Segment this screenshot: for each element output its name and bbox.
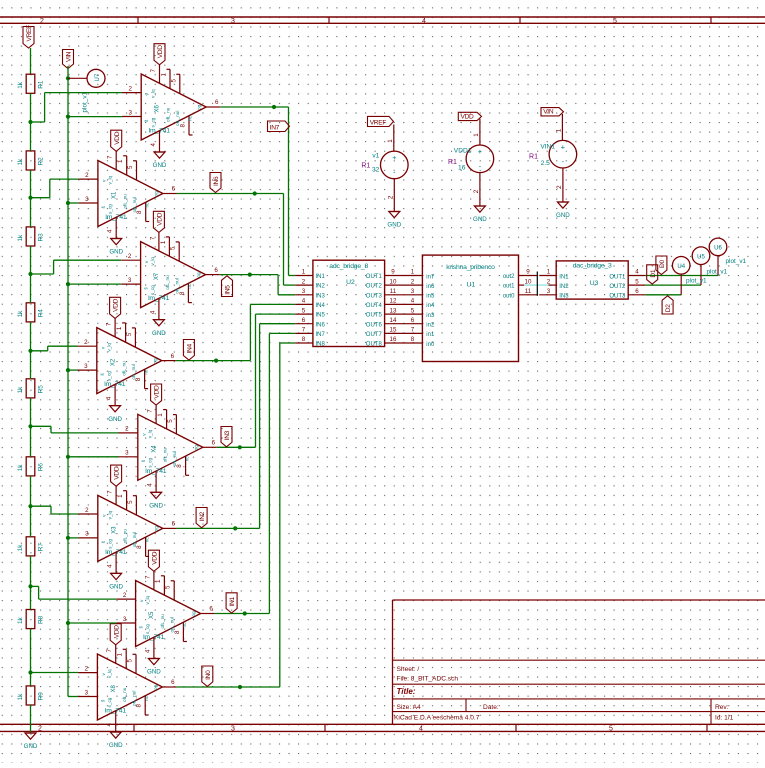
svg-text:lm_741: lm_741 (145, 468, 167, 475)
svg-text:3: 3 (302, 288, 306, 295)
svg-text:ofL_nul: ofL_nul (172, 451, 177, 466)
svg-text:IN6: IN6 (316, 322, 326, 328)
svg-text:R2: R2 (38, 157, 45, 166)
svg-text:og: og (197, 104, 202, 110)
op-amp X1 lm_741 (79, 151, 177, 238)
svg-text:VDD: VDD (152, 551, 159, 565)
svg-text:+: + (478, 147, 482, 156)
svg-text:OUT4: OUT4 (366, 303, 383, 309)
svg-text:7: 7 (302, 327, 306, 334)
svg-text:5: 5 (127, 659, 134, 663)
wire net from X3 output to ADC pin 6 (177, 324, 295, 531)
resistor R3 1k (17, 227, 45, 246)
svg-text:2: 2 (125, 426, 129, 433)
svg-text:GND: GND (473, 216, 487, 223)
svg-text:s_cg: s_cg (107, 204, 112, 214)
svg-text:1: 1 (387, 139, 394, 143)
svg-text:X3: X3 (111, 526, 117, 534)
svg-text:16: 16 (458, 165, 466, 172)
svg-text:U2: U2 (346, 279, 355, 286)
global label IN6 (210, 173, 221, 193)
svg-text:out0: out0 (503, 293, 515, 299)
svg-text:3: 3 (85, 196, 89, 203)
svg-text:6: 6 (171, 679, 175, 686)
junction dots on VIN rail (66, 76, 70, 625)
svg-text:4: 4 (107, 229, 114, 233)
svg-text:IN1: IN1 (229, 597, 236, 607)
svg-text:IN3: IN3 (316, 293, 326, 299)
svg-text:5: 5 (609, 726, 613, 733)
svg-text:IN8: IN8 (316, 342, 326, 348)
svg-text:Rev:: Rev: (715, 704, 729, 711)
svg-text:2: 2 (473, 189, 480, 193)
power label VDD for X4 (151, 384, 162, 405)
plot component U4 (672, 257, 707, 285)
op-amp X6 lm_741 (122, 65, 220, 152)
svg-text:nc: nc (182, 622, 187, 628)
svg-text:dac_bridge_3: dac_bridge_3 (573, 263, 612, 270)
svg-text:2: 2 (128, 253, 132, 260)
plot component U5 (692, 247, 727, 275)
svg-text:IN5: IN5 (225, 285, 232, 295)
svg-text:2: 2 (38, 726, 42, 733)
svg-text:ofL_nul: ofL_nul (131, 364, 136, 379)
svg-text:1: 1 (117, 494, 124, 498)
svg-text:7: 7 (150, 69, 157, 73)
svg-text:1k: 1k (17, 234, 24, 242)
svg-text:og: og (191, 611, 196, 617)
svg-text:X5: X5 (149, 611, 155, 619)
svg-text:in3: in3 (426, 313, 435, 319)
svg-text:R1: R1 (38, 80, 45, 89)
resistor R8 1k (17, 610, 45, 629)
svg-text:2: 2 (40, 18, 44, 25)
svg-text:32: 32 (372, 166, 380, 173)
svg-text:GND: GND (153, 162, 167, 169)
resistor R5 1k (17, 379, 45, 398)
svg-text:1: 1 (117, 653, 124, 657)
wire resistor chain (30, 93, 32, 733)
svg-text:VDD: VDD (157, 45, 164, 59)
svg-text:ofL_nul: ofL_nul (131, 691, 136, 706)
svg-text:2: 2 (84, 339, 88, 346)
svg-text:out1: out1 (503, 284, 515, 290)
svg-text:GND: GND (147, 669, 161, 676)
svg-text:8: 8 (136, 545, 143, 549)
svg-text:IN4: IN4 (316, 303, 326, 309)
svg-text:5: 5 (167, 419, 174, 423)
svg-text:2: 2 (128, 85, 132, 92)
svg-text:nc: nc (144, 202, 149, 208)
ground below X5 (147, 659, 161, 676)
svg-text:s_cg: s_cg (145, 624, 150, 634)
svg-text:3: 3 (128, 277, 132, 284)
svg-text:4: 4 (147, 483, 154, 487)
svg-text:8: 8 (174, 630, 181, 634)
svg-text:7: 7 (149, 236, 156, 240)
svg-text:in6: in6 (426, 284, 435, 290)
svg-text:OUT2: OUT2 (609, 284, 626, 290)
svg-text:3: 3 (231, 18, 235, 25)
svg-text:in1: in1 (426, 332, 435, 338)
svg-text:Date:: Date: (483, 704, 499, 711)
svg-text:IN1: IN1 (559, 274, 569, 280)
svg-text:5: 5 (302, 307, 306, 314)
svg-text:1: 1 (116, 326, 123, 330)
svg-text:plot_v1: plot_v1 (707, 268, 728, 275)
svg-text:R1: R1 (529, 154, 538, 161)
svg-text:2: 2 (411, 278, 415, 285)
IC U1 krishna_pribenco (422, 255, 537, 361)
svg-text:IN7: IN7 (270, 124, 280, 131)
svg-text:8: 8 (302, 336, 306, 343)
svg-text:nc: nc (143, 369, 148, 375)
power label VDD for X5 (148, 550, 159, 571)
svg-text:R1: R1 (361, 163, 370, 170)
svg-text:U7: U7 (95, 73, 101, 81)
ground below VDD source (473, 206, 487, 223)
svg-text:1: 1 (302, 269, 306, 276)
svg-text:5: 5 (170, 246, 177, 250)
svg-text:X6: X6 (155, 104, 161, 112)
svg-text:Size: A4: Size: A4 (397, 704, 422, 711)
svg-text:U4: U4 (677, 264, 685, 270)
svg-text:IN1: IN1 (316, 274, 326, 280)
svg-text:nc: nc (188, 115, 193, 121)
svg-text:v1: v1 (372, 152, 379, 159)
svg-text:10: 10 (390, 278, 397, 285)
svg-text:7: 7 (107, 490, 114, 494)
svg-text:2: 2 (123, 592, 127, 599)
svg-text:2: 2 (556, 185, 563, 189)
global label VIN (541, 108, 564, 116)
svg-text:2: 2 (85, 665, 89, 672)
svg-text:R1: R1 (448, 159, 457, 166)
wire net from X1 output to ADC pin 2 (177, 191, 295, 285)
svg-text:IN3: IN3 (224, 430, 231, 440)
svg-text:plot_v1: plot_v1 (726, 258, 747, 265)
ground below VREF source (387, 212, 401, 229)
svg-text:5: 5 (127, 165, 134, 169)
op-amp X5 lm_741 (116, 571, 214, 658)
svg-text:3: 3 (547, 288, 551, 295)
global label D1 (647, 265, 658, 284)
wires U2 outputs to U1 inputs (402, 269, 423, 344)
svg-text:D0: D0 (659, 260, 666, 268)
svg-text:R3: R3 (38, 233, 45, 242)
svg-text:7: 7 (411, 327, 415, 334)
svg-text:File: 8_BIT_ADC.sch: File: 8_BIT_ADC.sch (397, 676, 459, 683)
svg-text:ofL_nu: ofL_nu (166, 107, 171, 122)
svg-text:lm_741: lm_741 (105, 214, 127, 221)
svg-text:2: 2 (302, 278, 306, 285)
svg-text:ofL_nu: ofL_nu (165, 275, 170, 290)
global label IN0 (202, 666, 213, 686)
svg-text:X1: X1 (111, 191, 117, 199)
svg-text:2: 2 (387, 195, 394, 199)
svg-text:4: 4 (422, 18, 426, 25)
sheet border bottom (0, 724, 765, 732)
svg-text:3: 3 (85, 689, 89, 696)
global label VREF (23, 25, 34, 48)
svg-text:1: 1 (157, 413, 164, 417)
svg-text:og: og (153, 526, 158, 532)
graphic line between U1 and U3 (536, 272, 538, 296)
svg-text:v_lq: v_lq (145, 596, 150, 605)
svg-text:ofL_nu: ofL_nu (121, 361, 126, 376)
svg-text:KiCad E.D.A eeschema 4.0.7: KiCad E.D.A eeschema 4.0.7 (394, 714, 480, 721)
svg-text:9: 9 (391, 269, 395, 276)
svg-text:in2: in2 (426, 323, 435, 329)
svg-text:VIN: VIN (66, 51, 73, 62)
ground below X7 (152, 320, 166, 337)
svg-text:ofL_nul: ofL_nul (175, 278, 180, 293)
svg-text:2: 2 (85, 507, 89, 514)
svg-text:GND: GND (149, 503, 163, 510)
svg-text:OUT1: OUT1 (609, 274, 626, 280)
svg-text:ofL_nul: ofL_nul (170, 617, 175, 632)
svg-text:5: 5 (165, 585, 172, 589)
svg-text:VDD: VDD (114, 131, 121, 145)
ground below X6 (153, 152, 167, 169)
svg-text:v_lq: v_lq (106, 343, 111, 352)
svg-text:R7: R7 (38, 543, 45, 552)
svg-text:ofL_nu: ofL_nu (162, 448, 167, 463)
svg-text:ofL_nul: ofL_nul (132, 197, 137, 212)
op-amp X4 lm_741 (119, 405, 217, 492)
svg-text:ofL_nul: ofL_nul (175, 111, 180, 126)
svg-text:ofL_nu: ofL_nu (122, 529, 127, 544)
wire VIN rail (67, 66, 69, 697)
svg-text:VREF: VREF (370, 119, 387, 126)
svg-text:3: 3 (123, 616, 127, 623)
svg-text:lm_741: lm_741 (149, 128, 171, 135)
plot component U7 (68, 69, 105, 112)
svg-text:VDD: VDD (113, 625, 120, 639)
svg-text:adc_bridge_8: adc_bridge_8 (329, 263, 368, 270)
svg-text:D1: D1 (650, 269, 657, 277)
svg-text:lm_741: lm_741 (148, 295, 170, 302)
svg-text:nc: nc (144, 695, 149, 701)
svg-text:GND: GND (24, 743, 38, 750)
op-amp X3 lm_741 (79, 486, 177, 573)
svg-text:8: 8 (136, 704, 143, 708)
svg-text:R8: R8 (38, 615, 45, 624)
global label D0 (656, 256, 667, 275)
svg-text:4: 4 (150, 143, 157, 147)
svg-text:D2: D2 (665, 304, 672, 312)
svg-text:IN4: IN4 (187, 344, 194, 354)
svg-text:GND: GND (152, 330, 166, 337)
svg-text:7: 7 (144, 575, 151, 579)
svg-text:4: 4 (107, 564, 114, 568)
svg-text:5: 5 (170, 79, 177, 83)
svg-text:4: 4 (144, 649, 151, 653)
svg-text:OUT1: OUT1 (366, 274, 383, 280)
svg-text:6: 6 (302, 317, 306, 324)
resistor R1 1k (17, 74, 45, 93)
global label IN2 (196, 508, 207, 528)
svg-text:1: 1 (547, 269, 551, 276)
junction dots on ladder (28, 120, 32, 675)
svg-text:GND: GND (108, 416, 122, 423)
resistor R4 1k (17, 303, 45, 322)
power label VDD for X7 (153, 211, 164, 232)
svg-text:OUT5: OUT5 (366, 313, 383, 319)
svg-text:lm_741: lm_741 (104, 381, 126, 388)
wire highlighted net U1 out1 to U3 IN2 (524, 284, 552, 286)
svg-text:1: 1 (155, 579, 162, 583)
voltage source vin v1 (529, 114, 577, 202)
power label VDD for X6 (154, 44, 165, 65)
svg-text:8: 8 (411, 336, 415, 343)
svg-text:4: 4 (411, 298, 415, 305)
global label IN5 (222, 276, 233, 297)
svg-text:VDD1: VDD1 (454, 147, 472, 154)
ground below VIN source (556, 202, 570, 219)
svg-text:IN2: IN2 (559, 284, 569, 290)
svg-text:GND: GND (387, 222, 401, 229)
global label IN4 (183, 340, 194, 361)
svg-text:v_lq: v_lq (107, 669, 112, 678)
svg-text:VIN1: VIN1 (540, 143, 555, 150)
svg-text:s_cg: s_cg (151, 117, 156, 127)
svg-text:1: 1 (555, 128, 562, 132)
svg-text:ofL_nul: ofL_nul (132, 532, 137, 547)
global label VREF (368, 116, 394, 126)
svg-text:VDD: VDD (461, 113, 475, 120)
svg-text:Id: 1/1: Id: 1/1 (715, 714, 734, 721)
wire VREF to R1 (30, 48, 32, 74)
svg-text:+: + (392, 153, 396, 162)
svg-text:1k: 1k (17, 464, 24, 472)
svg-text:OUT2: OUT2 (366, 284, 383, 290)
wire net from X5 output to ADC pin 7 (215, 333, 296, 615)
voltage source vdd v1 (448, 119, 494, 206)
svg-text:3: 3 (85, 531, 89, 538)
IC U2 adc_bridge_8 (295, 260, 401, 347)
svg-text:in5: in5 (426, 294, 435, 300)
svg-text:GND: GND (556, 212, 570, 219)
svg-text:OUT3: OUT3 (609, 294, 626, 300)
svg-text:1: 1 (117, 159, 124, 163)
svg-text:IN6: IN6 (213, 176, 220, 186)
svg-text:2.5: 2.5 (541, 160, 550, 167)
svg-text:6: 6 (172, 186, 176, 193)
svg-text:6: 6 (212, 440, 216, 447)
global label VDD (458, 112, 481, 120)
svg-text:+: + (561, 142, 565, 151)
op-amp X2 lm_741 (78, 318, 176, 405)
resistor R6 1k (17, 457, 45, 476)
svg-text:8: 8 (135, 377, 142, 381)
svg-text:nc: nc (144, 537, 149, 543)
svg-text:U1: U1 (467, 282, 476, 289)
svg-text:og: og (153, 684, 158, 690)
power label VDD for X8 (110, 624, 121, 645)
svg-text:R4: R4 (38, 309, 45, 318)
svg-text:s_cg: s_cg (107, 697, 112, 707)
svg-text:1k: 1k (17, 616, 24, 624)
svg-text:R5: R5 (38, 385, 45, 394)
svg-text:VDD: VDD (157, 212, 164, 226)
voltage source vref v1 (361, 125, 408, 212)
svg-text:6: 6 (635, 288, 639, 295)
svg-text:3: 3 (125, 450, 129, 457)
svg-text:GND: GND (109, 742, 123, 749)
svg-text:IN3: IN3 (559, 294, 569, 300)
svg-text:U3: U3 (590, 280, 599, 287)
svg-text:X2: X2 (110, 358, 116, 366)
ground below X4 (149, 492, 163, 509)
wire U3 OUT1 to plot U6 (645, 256, 718, 275)
op-amp X7 lm_741 (121, 232, 219, 319)
svg-text:nc: nc (184, 456, 189, 462)
svg-text:5: 5 (126, 332, 133, 336)
svg-text:IN7: IN7 (316, 332, 326, 338)
plot component U6 (709, 238, 746, 265)
svg-text:krishna_pribenco: krishna_pribenco (446, 264, 495, 271)
svg-text:v_lq: v_lq (147, 429, 152, 438)
svg-text:in4: in4 (426, 303, 435, 309)
ground ladder (24, 733, 38, 750)
svg-text:13: 13 (390, 307, 397, 314)
svg-text:GND: GND (109, 249, 123, 256)
svg-text:5: 5 (613, 18, 617, 25)
svg-text:9: 9 (526, 269, 530, 276)
svg-text:OUT3: OUT3 (366, 293, 383, 299)
svg-text:1k: 1k (17, 310, 24, 318)
svg-text:X4: X4 (151, 445, 157, 453)
svg-text:8: 8 (180, 124, 187, 128)
svg-text:1k: 1k (17, 544, 24, 552)
svg-text:7: 7 (106, 322, 113, 326)
svg-text:15: 15 (390, 327, 397, 334)
power label VDD for X3 (111, 465, 122, 486)
svg-text:Title:: Title: (397, 687, 416, 696)
svg-text:og: og (193, 445, 198, 451)
svg-text:6: 6 (171, 353, 175, 360)
svg-text:16: 16 (390, 336, 397, 343)
svg-text:2: 2 (85, 172, 89, 179)
svg-text:v_lq: v_lq (107, 510, 112, 519)
wire net from X4 output to ADC pin 5 (217, 314, 295, 449)
wires U1 outputs to U3 inputs (539, 269, 556, 295)
svg-text:1: 1 (160, 240, 167, 244)
svg-text:4: 4 (106, 396, 113, 400)
svg-text:4: 4 (635, 269, 639, 276)
svg-text:4: 4 (106, 723, 113, 727)
IC U3 dac_bridge_3 (556, 261, 645, 300)
ground below X8 (109, 732, 123, 749)
svg-text:ofL_nu: ofL_nu (122, 194, 127, 209)
wire U3 OUT3 to plot U4 (645, 275, 681, 295)
resistor R7 1k (17, 537, 45, 556)
svg-text:s_cg: s_cg (107, 539, 112, 549)
svg-text:in7: in7 (426, 274, 435, 280)
svg-text:VDD: VDD (113, 298, 120, 312)
svg-text:og: og (152, 358, 157, 364)
ground below X1 (109, 239, 123, 256)
svg-text:11: 11 (525, 288, 532, 295)
svg-text:5: 5 (127, 500, 134, 504)
svg-text:7: 7 (106, 649, 113, 653)
svg-text:1k: 1k (17, 158, 24, 166)
svg-text:14: 14 (390, 317, 397, 324)
wire VIN branches to op-amp + inputs (68, 117, 122, 697)
svg-text:VIN: VIN (543, 109, 554, 116)
resistor R9 1k (17, 686, 45, 705)
